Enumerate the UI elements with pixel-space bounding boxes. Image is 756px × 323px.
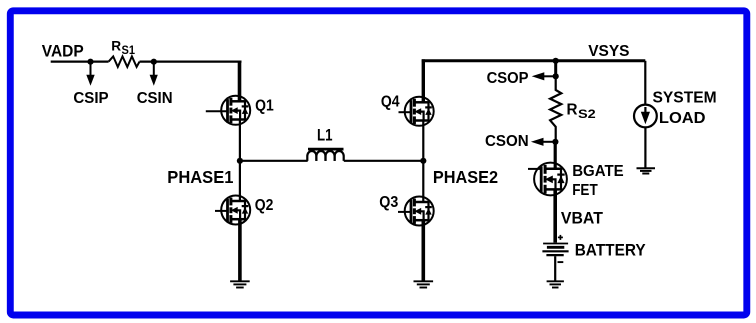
wire VSYS to system load <box>644 61 646 105</box>
arrow CSON <box>543 141 556 143</box>
arrow CSOP <box>544 75 556 77</box>
svg-text:R: R <box>111 38 121 54</box>
transistor BGATE FET <box>528 163 567 196</box>
wire system load to ground <box>644 127 646 168</box>
svg-text:SYSTEM: SYSTEM <box>653 90 717 107</box>
svg-text:FET: FET <box>572 182 598 199</box>
ground system load <box>637 167 656 169</box>
ground battery <box>547 280 564 282</box>
wire Q3 source to ground (thick) <box>421 220 425 281</box>
inductor L1 <box>308 148 344 151</box>
transistor Q4 <box>399 97 434 126</box>
transistor Q3 <box>398 197 434 226</box>
arrow CSIN <box>153 63 155 75</box>
wire Q1 source to PHASE1 <box>239 120 241 161</box>
wire PHASE1 to L1 <box>240 160 308 162</box>
wire CSON to BGATE FET drain (thick) <box>554 142 557 169</box>
svg-text:Q1: Q1 <box>255 97 274 114</box>
svg-text:PHASE2: PHASE2 <box>433 167 498 187</box>
wire Rs1 to Q1 drain corner <box>140 60 242 62</box>
transistor Q1 <box>206 96 250 125</box>
wire battery to ground <box>554 256 556 281</box>
battery BATTERY <box>543 243 568 245</box>
wire Q1 drain (thick) <box>238 61 242 102</box>
svg-text:L1: L1 <box>317 126 333 145</box>
svg-text:VADP: VADP <box>42 43 84 61</box>
junction PHASE2 <box>420 158 426 164</box>
arrow CSIP <box>90 63 92 75</box>
junction VSYS <box>553 58 559 64</box>
svg-text:VSYS: VSYS <box>588 43 630 60</box>
svg-text:S1: S1 <box>122 45 136 57</box>
resistor Rs2 <box>550 76 561 142</box>
svg-text:BGATE: BGATE <box>572 163 624 180</box>
transistor Q2 <box>215 196 250 225</box>
wire PHASE1 to Q2 drain <box>239 161 241 201</box>
svg-text:Q4: Q4 <box>381 93 400 110</box>
wire BGATE FET source to battery (thick) <box>553 189 557 242</box>
svg-text:Q2: Q2 <box>255 197 274 214</box>
wire VSYS to CSOP <box>554 61 557 77</box>
svg-text:CSON: CSON <box>485 133 529 150</box>
junction CSIN <box>151 59 157 65</box>
svg-text:CSOP: CSOP <box>487 70 529 87</box>
junction PHASE1 <box>237 158 243 164</box>
resistor Rs1 <box>109 56 140 67</box>
wire Q4 drain (thick) <box>422 59 425 102</box>
ground Q3 <box>414 280 434 282</box>
junction CSON <box>552 139 558 145</box>
svg-text:S2: S2 <box>578 107 596 121</box>
battery minus mark <box>558 261 564 263</box>
junction CSIP <box>87 59 93 65</box>
battery plus mark <box>558 236 563 238</box>
wire VSYS rail (thick) <box>422 59 646 62</box>
ground Q2 <box>230 280 250 282</box>
junction CSOP <box>553 73 559 79</box>
wire PHASE2 to Q3 drain <box>422 161 424 202</box>
svg-text:R: R <box>567 102 578 119</box>
current source SYSTEM LOAD <box>634 105 657 128</box>
svg-text:LOAD: LOAD <box>659 110 706 127</box>
wire VADP to Rs1 <box>51 60 109 62</box>
wire Q4 source to PHASE2 <box>422 121 424 161</box>
wire Q2 source to ground (thick) <box>238 219 242 281</box>
svg-text:CSIN: CSIN <box>137 90 173 107</box>
svg-text:BATTERY: BATTERY <box>575 241 646 259</box>
wire L1 to PHASE2 <box>344 160 424 162</box>
svg-text:Q3: Q3 <box>379 194 398 211</box>
svg-text:CSIP: CSIP <box>73 90 109 107</box>
svg-text:PHASE1: PHASE1 <box>167 167 233 187</box>
svg-text:VBAT: VBAT <box>561 210 603 228</box>
